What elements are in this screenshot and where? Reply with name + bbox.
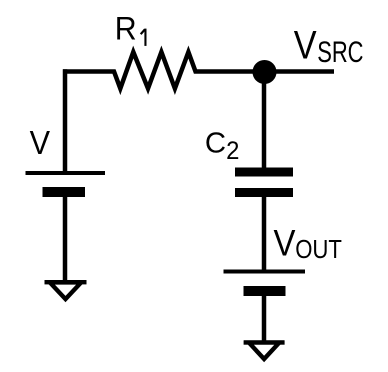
svg-text:V: V	[274, 223, 297, 264]
svg-text:2: 2	[226, 138, 239, 166]
svg-text:V: V	[30, 124, 51, 161]
svg-text:SRC: SRC	[317, 35, 363, 69]
svg-text:R: R	[115, 11, 137, 47]
svg-text:C: C	[205, 128, 226, 160]
svg-text:V: V	[294, 22, 317, 67]
svg-text:OUT: OUT	[295, 235, 342, 264]
